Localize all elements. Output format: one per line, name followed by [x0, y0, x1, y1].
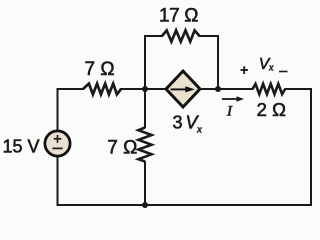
svg-text:15 V: 15 V — [2, 136, 39, 156]
wire: 17-ohm loop left vertical — [144, 35, 146, 89]
dependent source arrow inside diamond — [171, 86, 195, 92]
current arrow I — [222, 96, 244, 102]
wire: main horizontal, source corner to 7-ohm resistor — [57, 88, 85, 90]
wire: left vertical upper (source top lead) — [57, 88, 59, 130]
resistor R 7ohm vertical — [138, 128, 151, 162]
voltage source plus sign — [54, 135, 62, 143]
label plus sign of Vx — [241, 66, 249, 74]
wire: dependent source right tip to 2-ohm resistor — [199, 88, 254, 90]
dependent source U1 diamond 3Vx — [166, 71, 200, 107]
svg-text:3: 3 — [172, 113, 182, 133]
resistor R 7ohm horizontal — [83, 84, 121, 95]
node: junction dot B (top of right loop) — [215, 86, 221, 92]
voltage source minus sign — [52, 147, 62, 149]
node: junction dot C (bottom of middle branch) — [142, 202, 148, 208]
wire: 17-ohm loop top right segment — [199, 35, 220, 37]
wire: middle branch lower lead — [144, 161, 146, 205]
svg-text:I: I — [226, 104, 233, 120]
wire: middle branch upper lead — [144, 89, 146, 128]
svg-text:x: x — [268, 63, 274, 74]
wire: left vertical lower (source bottom lead) — [57, 157, 59, 206]
wire: 17-ohm loop top left segment — [144, 35, 163, 37]
voltage source V1 15V circle — [45, 131, 70, 156]
label minus sign of Vx — [279, 71, 288, 73]
wire: right vertical — [310, 88, 312, 206]
node: junction dot A (top of middle branch) — [142, 86, 148, 92]
resistor R 2ohm — [253, 84, 286, 94]
wire: 2-ohm resistor to right corner — [285, 88, 313, 90]
svg-text:7 Ω: 7 Ω — [107, 138, 137, 159]
svg-text:x: x — [196, 124, 202, 136]
svg-text:17 Ω: 17 Ω — [159, 6, 198, 27]
label Vx (voltage across 2-ohm) — [259, 56, 274, 74]
label 3 Vx — [172, 113, 202, 136]
svg-text:2 Ω: 2 Ω — [257, 99, 286, 120]
wire: 17-ohm loop right vertical — [217, 35, 219, 89]
wire: bottom horizontal — [57, 204, 313, 206]
svg-text:7 Ω: 7 Ω — [84, 59, 114, 80]
wire: 7-ohm resistor to dependent source left tip — [120, 88, 167, 90]
resistor R 17ohm — [162, 30, 200, 41]
